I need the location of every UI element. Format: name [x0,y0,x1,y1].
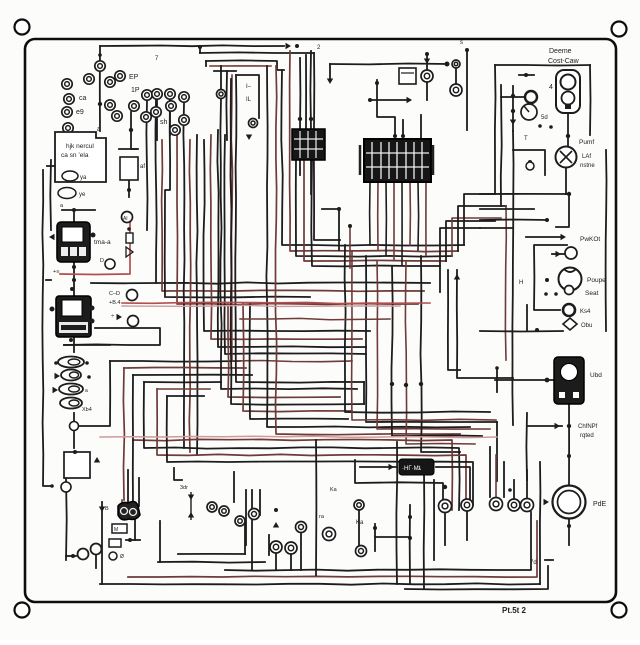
svg-text:LAf: LAf [582,154,591,160]
svg-text:T: T [524,136,528,142]
svg-text:EP: EP [129,74,139,81]
svg-text:IL: IL [246,97,252,103]
svg-text:Pt.5t 2: Pt.5t 2 [502,606,527,615]
svg-text:1P: 1P [131,87,140,94]
svg-text:hjk nercul: hjk nercul [66,143,94,150]
svg-text:a: a [97,126,101,133]
svg-text:Ks4: Ks4 [580,309,591,315]
svg-text:ca sn ’ela: ca sn ’ela [61,152,89,159]
svg-text:Ubd: Ubd [590,372,602,379]
svg-text:5d: 5d [541,115,548,121]
svg-text:Xb4: Xb4 [82,407,92,413]
svg-text:D: D [100,258,104,264]
svg-text:a: a [85,388,88,394]
svg-text:4: 4 [549,84,553,91]
svg-text:Ø: Ø [120,554,124,560]
svg-text:·ΗΓ·Μȶ: ·ΗΓ·Μȶ [402,466,422,472]
svg-text:Seat: Seat [585,290,599,297]
svg-text:M: M [114,527,118,533]
svg-text:ye: ye [79,192,86,198]
svg-text:Ka: Ka [356,520,364,526]
svg-text:PdE: PdE [593,501,607,508]
svg-text:Al: Al [123,216,127,222]
svg-text:ya: ya [80,175,87,181]
svg-text:PwKOt: PwKOt [580,236,600,243]
svg-text:tma-a: tma-a [94,239,111,246]
svg-text:C–D: C–D [109,291,120,297]
svg-text:Obu: Obu [581,323,592,329]
svg-text:7d: 7d [530,560,537,566]
svg-text:Cost-Caw: Cost-Caw [548,58,580,65]
svg-text:I–: I– [246,84,252,90]
svg-text:af: af [140,164,145,170]
svg-text:sh: sh [160,119,168,126]
svg-text:Deeme: Deeme [549,48,572,55]
svg-text:Ka: Ka [330,487,338,493]
svg-text:B: B [105,506,109,512]
svg-text:+B.4: +B.4 [109,300,120,306]
svg-text:nstne: nstne [580,163,595,169]
svg-text:3dr: 3dr [180,485,188,491]
svg-text:H: H [519,280,523,286]
svg-text:ca: ca [79,95,87,102]
svg-text:s: s [460,40,463,46]
svg-text:Poupe: Poupe [587,277,606,284]
svg-text:+≡: +≡ [53,269,59,275]
svg-text:rqted: rqted [580,433,594,439]
svg-text:ChfNPf: ChfNPf [578,424,598,430]
svg-text:e9: e9 [76,109,84,116]
svg-text:Pumf: Pumf [579,139,594,146]
